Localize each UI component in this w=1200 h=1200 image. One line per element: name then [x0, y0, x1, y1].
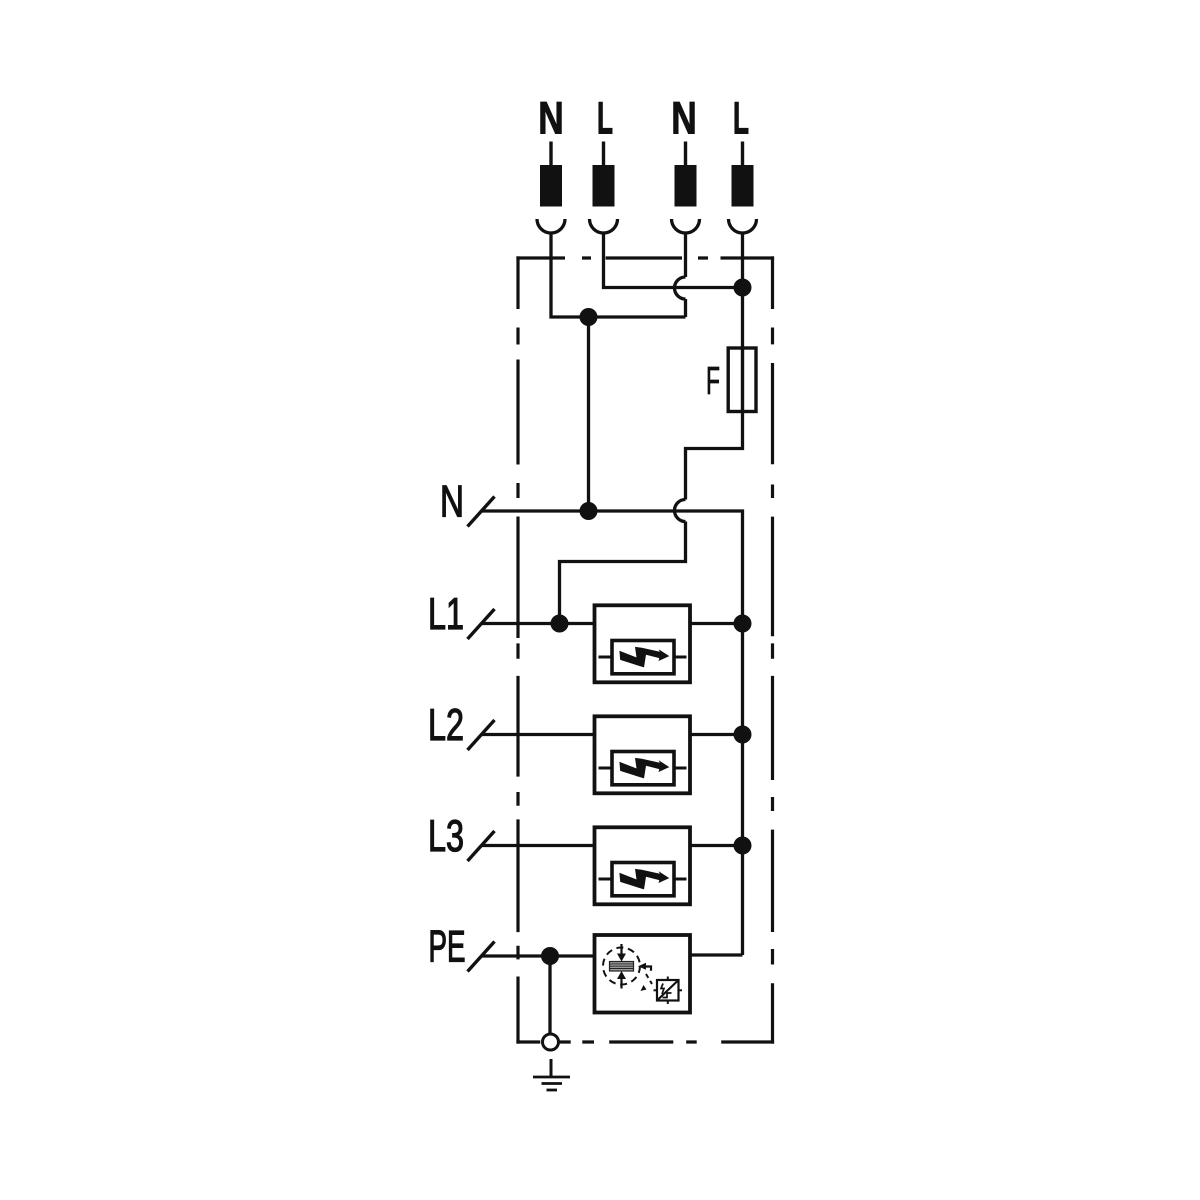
wire hop bottom to N link corner — [684, 299, 687, 317]
svg-text:N: N — [440, 478, 464, 527]
junction dot N link — [580, 308, 598, 326]
wire T1 down and right to T3 drop (N link) — [551, 233, 686, 317]
L1 row break slash — [468, 609, 495, 639]
N row break slash — [468, 497, 495, 527]
electrode bar — [610, 962, 634, 972]
hop of fuse wire over N row — [675, 500, 686, 522]
wire T4 down to fuse — [741, 233, 744, 349]
wire PE row right — [690, 953, 743, 956]
top arrow — [620, 944, 622, 954]
junction dot N row — [580, 502, 598, 520]
ground bar 1 — [533, 1076, 570, 1079]
wire L3 row left — [482, 844, 595, 847]
surge arrester box L3 — [595, 827, 691, 904]
left pointing trigger arrow — [638, 963, 646, 970]
PE row break slash — [468, 942, 495, 972]
wire T2 down and right to T4 (L link) — [604, 233, 743, 288]
enclosure border left edge (dash-dot) — [516, 256, 519, 1043]
wire fuse bottom to hop over N row — [686, 411, 743, 500]
ground bar 3 — [547, 1089, 558, 1092]
svg-text:L: L — [597, 92, 613, 143]
bottom arrow — [620, 979, 622, 989]
hop of T3 wire over L link — [675, 277, 686, 299]
enclosure passing terminal circle — [543, 1034, 559, 1050]
wire N row — [482, 511, 743, 955]
wire vertical N link to N row — [587, 317, 590, 511]
svg-text:N: N — [671, 92, 697, 143]
wire L2 row right — [690, 733, 743, 736]
svg-text:L: L — [733, 92, 749, 143]
wire PE down to earth circle — [548, 956, 551, 1035]
terminal 2 plug — [590, 142, 618, 234]
svg-text:PE: PE — [429, 923, 466, 972]
junction dot L1 right — [734, 615, 752, 633]
junction dot L2 right — [734, 726, 752, 744]
wire T3 down to hop — [684, 233, 687, 277]
svg-text:L3: L3 — [428, 812, 464, 861]
wire L1 row left — [482, 622, 595, 625]
surge arrester box L1 — [595, 605, 691, 682]
fuse F body — [728, 348, 756, 412]
fuse wire through — [741, 349, 744, 411]
junction dot L3 right — [734, 837, 752, 855]
svg-text:N: N — [538, 92, 564, 143]
wire L3 row right — [690, 844, 743, 847]
wire PE row left — [482, 954, 595, 957]
wire L1 row right — [690, 622, 743, 625]
dashed circle spark gap — [603, 948, 640, 985]
svg-text:L1: L1 — [428, 590, 464, 639]
junction dot L1 left — [551, 615, 569, 633]
varistor box — [657, 980, 679, 1001]
L2 row break slash — [468, 720, 495, 750]
ground bar 2 — [542, 1082, 563, 1085]
terminal 3 plug — [672, 142, 700, 234]
wire L2 row left — [482, 733, 595, 736]
junction dot PE — [541, 947, 559, 965]
surge arrester box L2 — [595, 716, 691, 793]
dashed link to varistor — [646, 974, 652, 984]
enclosure border right edge (dash-dot) — [771, 256, 774, 1043]
terminal 1 plug — [537, 142, 565, 234]
svg-text:L2: L2 — [428, 701, 464, 750]
terminal 4 plug — [729, 142, 757, 234]
wire hop to L1 row dot — [560, 522, 686, 624]
svg-text:F: F — [706, 360, 720, 403]
ground stem — [550, 1059, 553, 1077]
PE protective device box — [595, 935, 691, 1013]
L3 row break slash — [468, 831, 495, 861]
enclosure border top edge (dash-dot) — [516, 256, 774, 259]
junction dot L link at T4 — [734, 279, 752, 297]
enclosure border bottom edge (dash-dot) — [516, 1040, 774, 1043]
